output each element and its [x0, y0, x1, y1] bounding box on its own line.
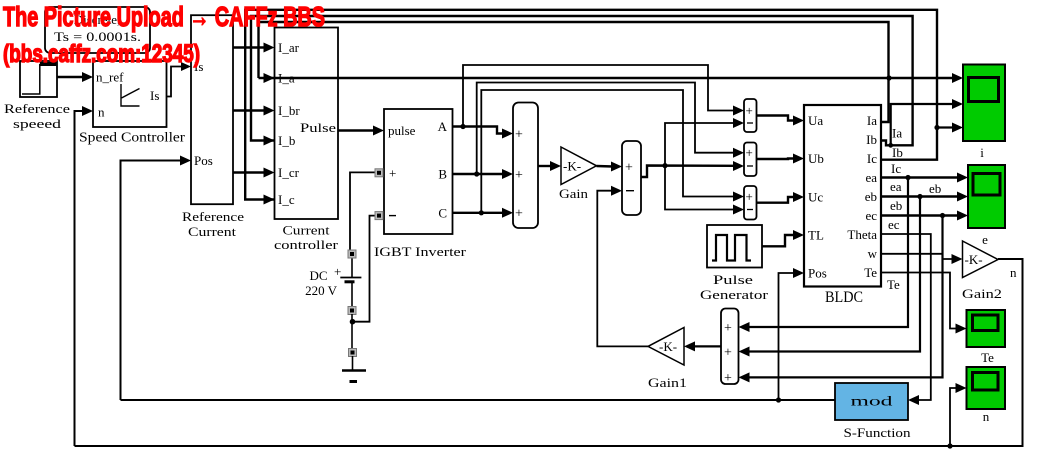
- svg-text:ec: ec: [865, 208, 877, 223]
- svg-text:speeed: speeed: [13, 116, 62, 131]
- ground: [342, 356, 366, 382]
- scope e: [968, 165, 1005, 247]
- svg-text:+: +: [746, 189, 753, 204]
- wire sum B to Ub: [757, 154, 805, 164]
- sum block B: [744, 143, 757, 177]
- block IGBT Inverter: [374, 109, 467, 259]
- wire feedback line Ib middle: [251, 16, 913, 146]
- svg-text:I_b: I_b: [278, 133, 295, 148]
- block Reference Current: [182, 15, 244, 239]
- sum block neutral sum2: [622, 141, 641, 215]
- wire C phase to sum: [453, 208, 514, 218]
- wire sum3 to Gain1: [684, 341, 721, 351]
- svg-text:Pos: Pos: [808, 266, 827, 281]
- svg-text:eb: eb: [865, 189, 877, 204]
- wire ec branch to sum3 in3: [739, 216, 943, 383]
- svg-text:Reference: Reference: [182, 209, 244, 224]
- svg-text:Te: Te: [864, 265, 877, 280]
- wire Reference Current out3 to I_cr: [233, 168, 275, 178]
- pad IGBT minus: [375, 212, 383, 220]
- wire A loop over to sum A plus: [463, 65, 744, 127]
- svg-text:S-Function: S-Function: [844, 425, 912, 440]
- wire sum2 output neutral line: [641, 161, 744, 177]
- svg-text:The Picture Upload → CAFFz BBS: The Picture Upload → CAFFz BBS: [3, 1, 325, 32]
- svg-text:(bbs.caffz.com:12345): (bbs.caffz.com:12345): [3, 40, 200, 68]
- svg-text:ea: ea: [865, 170, 877, 185]
- svg-text:A: A: [438, 119, 448, 134]
- wire Te to scope Te: [881, 273, 967, 334]
- wire w to Gain2: [881, 254, 963, 264]
- svg-text:I_cr: I_cr: [278, 165, 300, 180]
- svg-text:controller: controller: [274, 237, 339, 252]
- svg-text:+: +: [746, 103, 753, 118]
- pad battery top: [348, 250, 356, 258]
- svg-text:Gain: Gain: [559, 186, 589, 201]
- wire neutral bus to sum A minus and sum C minus: [665, 118, 744, 215]
- wire feedback line Ia bottom: [259, 22, 889, 122]
- wire Pos feedback to Reference Current: [121, 156, 192, 401]
- wire sum to Gain: [538, 161, 561, 171]
- svg-text:Reference: Reference: [4, 101, 70, 116]
- pad ground: [349, 349, 357, 357]
- gain Gain1: [648, 328, 687, 391]
- svg-text:Pos: Pos: [194, 153, 213, 168]
- wire IGBT plus terminal to battery: [350, 172, 379, 254]
- block BLDC: [804, 105, 881, 306]
- wire C loop over to sum C plus: [481, 90, 744, 213]
- wire eb line: [881, 192, 968, 202]
- source block Reference speed: [4, 61, 70, 131]
- svg-text:Ib: Ib: [866, 132, 877, 147]
- wire Ia long horizontal line to scope i in1: [259, 73, 964, 83]
- pad IGBT plus: [375, 169, 383, 177]
- pad battery bottom: [348, 307, 356, 315]
- svg-text:Gain1: Gain1: [648, 375, 687, 390]
- gain Gain2: [962, 241, 1017, 301]
- block Pulse Generator: [700, 225, 769, 302]
- powergui block Discrete: [45, 7, 150, 53]
- svg-text:I_c: I_c: [278, 192, 295, 207]
- svg-text:+: +: [389, 166, 396, 181]
- wire IGBT minus terminal down: [353, 216, 379, 322]
- svg-text:Ua: Ua: [808, 113, 823, 128]
- svg-text:Is: Is: [150, 88, 159, 103]
- sum block emf sum3: [721, 309, 739, 387]
- wire sum C to Uc: [757, 192, 805, 203]
- wire ec line: [881, 211, 968, 221]
- svg-text:+: +: [334, 264, 341, 279]
- svg-text:Ic: Ic: [867, 151, 877, 166]
- wire Speed Controller Is to Reference Current Is: [167, 62, 192, 97]
- svg-text:+: +: [746, 145, 753, 160]
- wire feedback line Ic top: [245, 10, 937, 205]
- svg-text:e: e: [982, 232, 988, 247]
- wire mod output Pos feedback: [121, 268, 836, 403]
- node battery minus junction: [350, 314, 356, 352]
- svg-text:mod: mod: [851, 394, 893, 409]
- wire Theta to S-Function: [881, 234, 931, 405]
- svg-text:Theta: Theta: [847, 227, 877, 242]
- svg-text:eb: eb: [929, 181, 941, 196]
- gain Gain: [559, 147, 597, 201]
- svg-text:Current: Current: [188, 224, 236, 239]
- svg-text:220 V: 220 V: [305, 283, 338, 298]
- svg-text:Current: Current: [283, 223, 330, 238]
- wire Gain1 to sum2 minus: [597, 186, 648, 347]
- svg-text:ea: ea: [890, 179, 902, 194]
- wire sum A to Ua: [757, 116, 805, 126]
- svg-text:Generator: Generator: [700, 287, 769, 302]
- svg-text:+: +: [625, 161, 633, 176]
- svg-text:Gain2: Gain2: [962, 286, 1002, 301]
- svg-text:eb: eb: [890, 198, 902, 213]
- svg-text:+: +: [515, 207, 523, 222]
- wire Gain2 output n feedback: [75, 259, 1023, 449]
- svg-text:Te: Te: [981, 350, 994, 365]
- sum block C: [744, 186, 757, 220]
- scope i: [963, 65, 1005, 161]
- svg-text:+: +: [724, 346, 732, 361]
- svg-text:+: +: [515, 128, 523, 143]
- svg-text:w: w: [868, 246, 878, 261]
- wire Gain to sum2 plus: [597, 162, 623, 172]
- svg-text:Ib: Ib: [892, 145, 903, 160]
- svg-text:ec: ec: [888, 217, 900, 232]
- svg-text:n: n: [98, 105, 105, 120]
- sum block ABC: [513, 103, 538, 229]
- svg-text:Ub: Ub: [808, 151, 824, 166]
- svg-text:-K-: -K-: [563, 159, 581, 174]
- wire Pulse Generator to TL: [762, 230, 804, 246]
- svg-text:Speed Controller: Speed Controller: [79, 130, 186, 145]
- wire ea line: [881, 173, 968, 183]
- svg-text:-K-: -K-: [659, 339, 677, 354]
- wire n feedback into Speed Controller: [75, 106, 94, 446]
- wire eb branch to sum3 in2: [739, 197, 921, 357]
- DC source battery: [305, 258, 361, 307]
- svg-text:pulse: pulse: [388, 123, 416, 138]
- svg-text:Te: Te: [887, 277, 900, 292]
- svg-text:DC: DC: [309, 268, 327, 283]
- svg-text:-K-: -K-: [965, 252, 983, 267]
- svg-text:Pulse: Pulse: [713, 272, 753, 287]
- svg-text:C: C: [438, 206, 447, 221]
- svg-text:Uc: Uc: [808, 190, 823, 205]
- wire A phase to sum: [453, 124, 514, 139]
- svg-text:Ia: Ia: [867, 113, 877, 128]
- svg-text:Pulse: Pulse: [300, 120, 336, 135]
- svg-text:B: B: [438, 167, 447, 182]
- wire Reference Current out1 to I_ar: [233, 43, 275, 53]
- block Speed Controller: [79, 61, 186, 145]
- svg-text:n: n: [1010, 265, 1017, 280]
- svg-text:n: n: [983, 409, 990, 424]
- sum block A: [744, 99, 757, 132]
- scope n: [967, 367, 1006, 424]
- block S-Function mod: [835, 383, 911, 440]
- wire Reference speed to n_ref: [57, 72, 93, 82]
- wire Pulse to IGBT pulse: [338, 126, 384, 136]
- svg-text:Ia: Ia: [892, 126, 902, 141]
- block Current controller: [274, 28, 339, 253]
- svg-text:+: +: [515, 168, 523, 183]
- wire Ic branch to scope i in3: [934, 123, 963, 133]
- svg-text:BLDC: BLDC: [825, 289, 863, 306]
- svg-text:Ic: Ic: [891, 161, 901, 176]
- wire B phase to sum: [453, 169, 514, 179]
- svg-text:TL: TL: [808, 228, 824, 243]
- svg-text:I_ar: I_ar: [278, 40, 300, 55]
- wire Reference Current out2 to I_br: [233, 106, 275, 116]
- wire ea branch to sum3 in1: [739, 178, 909, 333]
- wire Ib branch to scope i in2: [888, 99, 963, 148]
- svg-text:I_br: I_br: [278, 103, 300, 118]
- svg-text:n_ref: n_ref: [96, 70, 124, 85]
- svg-text:i: i: [980, 145, 984, 160]
- scope Te: [967, 310, 1006, 365]
- wire B loop over to sum B plus: [477, 83, 744, 175]
- svg-text:+: +: [724, 371, 732, 386]
- svg-text:IGBT Inverter: IGBT Inverter: [374, 244, 467, 259]
- svg-text:+: +: [724, 321, 732, 336]
